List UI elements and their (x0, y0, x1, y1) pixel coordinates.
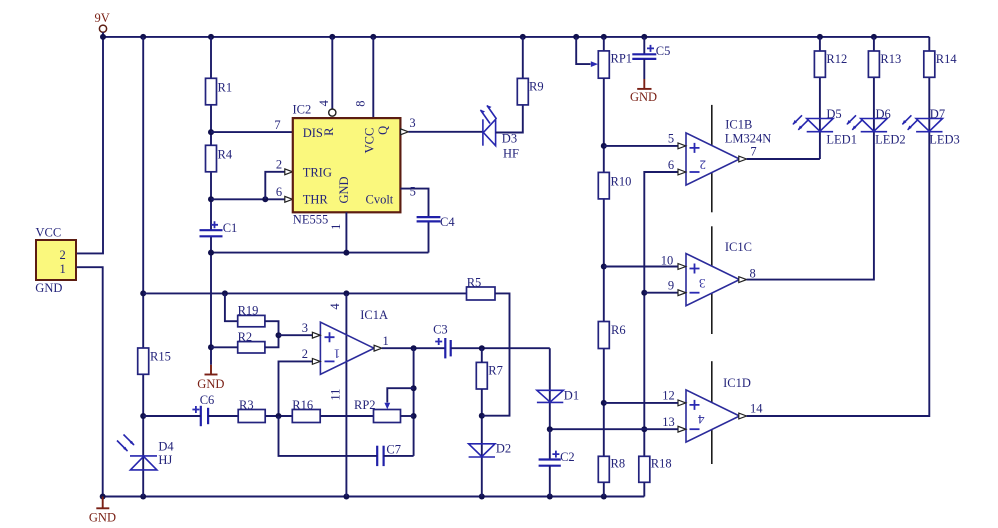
wire R19 left drop (225, 293, 238, 321)
svg-text:R: R (322, 127, 336, 136)
pin arrow IC1A in3 (312, 332, 320, 338)
capacitor C1 polarized (200, 221, 238, 237)
node gnd bus C2 (547, 494, 553, 500)
resistor R15 (138, 348, 171, 374)
svg-text:C4: C4 (440, 215, 455, 229)
wire D1 column (549, 348, 551, 429)
svg-text:1: 1 (334, 347, 341, 362)
wire IC1A pin2 (279, 361, 313, 416)
LED D3 (HF emitter) (480, 105, 519, 160)
svg-text:2: 2 (700, 157, 707, 172)
svg-text:NE555: NE555 (293, 212, 328, 226)
LED D6 LED2 (847, 107, 906, 147)
node D1/C2/pin13 (547, 426, 553, 432)
svg-text:6: 6 (276, 185, 282, 199)
svg-text:11: 11 (328, 389, 342, 401)
svg-text:R12: R12 (826, 52, 847, 66)
LED D7 LED3 (902, 107, 960, 147)
node top bus RP1 wiper (573, 34, 579, 40)
node IC1C pin9 (641, 290, 647, 296)
node gnd bus D2 (479, 494, 485, 500)
wire R9 top (522, 37, 524, 79)
pin arrow IC1D in12 (678, 400, 686, 406)
pin arrow IC1B out7 (739, 156, 747, 162)
svg-text:R2: R2 (238, 330, 253, 344)
svg-text:R6: R6 (611, 323, 626, 337)
op-amp IC2 NE555 (293, 103, 401, 227)
svg-text:D3: D3 (502, 132, 517, 146)
svg-text:D4: D4 (158, 440, 174, 454)
svg-text:R3: R3 (239, 398, 254, 412)
svg-text:IC1B: IC1B (725, 118, 752, 132)
node top bus R9 (520, 34, 526, 40)
svg-text:IC2: IC2 (293, 103, 312, 117)
wire R15/D4 column (142, 37, 144, 497)
svg-text:4: 4 (328, 303, 342, 310)
node C1 bottom (208, 250, 214, 256)
svg-text:RP2: RP2 (354, 398, 376, 412)
pin arrow IC1D in13 (678, 426, 686, 432)
resistor R14 (924, 51, 958, 77)
node R3/R16/C7/pin2 (276, 413, 282, 419)
wire C7 left loop (279, 416, 378, 456)
LED D5 LED1 (793, 107, 857, 147)
svg-text:D6: D6 (876, 107, 891, 121)
wire R18 bottom to gnd bus (643, 482, 645, 496)
wire IC1B out to D5 (747, 158, 820, 160)
capacitor C5 polarized (632, 37, 670, 79)
pin arrow IC1A out1 (374, 345, 382, 351)
rail IC1C (711, 226, 713, 334)
pin 4 inversion circle (329, 109, 336, 116)
wire C1-pin1-C4 rail (211, 252, 429, 254)
svg-text:VCC: VCC (36, 226, 62, 240)
connector VCC (35, 226, 76, 296)
diode D1 (537, 389, 579, 403)
svg-text:GND: GND (35, 281, 62, 295)
potentiometer RP2 (354, 398, 401, 423)
wire RP1 bottom / R10 column (603, 78, 605, 496)
resistor R6 (598, 322, 625, 349)
resistor R8 (598, 456, 625, 482)
svg-text:RP1: RP1 (611, 52, 633, 66)
wire R7 column (481, 348, 483, 362)
node IC1D pin12 (601, 400, 607, 406)
node DIS junction (208, 129, 214, 135)
svg-text:D5: D5 (826, 107, 841, 121)
svg-text:5: 5 (668, 132, 674, 146)
capacitor C3 polarized (433, 323, 451, 359)
svg-text:4: 4 (698, 412, 705, 427)
node TRIG/THR junction (262, 196, 268, 202)
wire IC1C pin10 (604, 266, 678, 268)
svg-text:C7: C7 (386, 443, 401, 457)
wire RP2 right (401, 415, 414, 417)
wire R2 left (211, 346, 238, 348)
wire RP2 wiper (387, 388, 413, 402)
op-amp IC1C (686, 240, 752, 306)
svg-text:2: 2 (276, 157, 282, 171)
node top bus RP1 (601, 34, 607, 40)
node R15 top y293 (140, 290, 146, 296)
wire 555 pin1 to lower rail (345, 212, 347, 252)
wire IC1C out to D6 column (747, 132, 874, 280)
wire D3 to R9 (496, 105, 523, 133)
capacitor C7 (377, 443, 401, 467)
pin arrow IC1C out8 (739, 277, 747, 283)
svg-text:2: 2 (60, 248, 66, 262)
svg-text:4: 4 (317, 99, 331, 106)
ground symbol bottom left (89, 497, 116, 525)
wire THR pin6 (211, 198, 285, 200)
svg-text:DIS: DIS (303, 126, 323, 140)
wire 555 pin8 from bus (372, 37, 374, 118)
svg-text:3: 3 (699, 276, 706, 291)
pin arrow TRIG (285, 169, 293, 175)
svg-text:R14: R14 (936, 52, 958, 66)
capacitor C2 polarized (539, 429, 575, 496)
svg-text:LM324N: LM324N (725, 132, 772, 146)
node wiper branch (411, 385, 417, 391)
svg-text:LED2: LED2 (875, 133, 906, 147)
ground symbol R2 column (197, 365, 224, 391)
svg-text:D7: D7 (930, 107, 945, 121)
wire IC1A pin4 (345, 293, 347, 496)
node top bus C5 (641, 34, 647, 40)
svg-text:R9: R9 (529, 80, 544, 94)
resistor R3 (238, 398, 265, 423)
svg-text:1: 1 (382, 334, 388, 348)
resistor R5 (467, 275, 496, 300)
wire IC1D pin12 (604, 402, 678, 404)
svg-text:3: 3 (409, 116, 415, 130)
resistor R16 (292, 398, 320, 423)
resistor R9 (517, 78, 543, 105)
pin arrow IC1C in10 (678, 264, 686, 270)
svg-text:3: 3 (302, 321, 308, 335)
node gnd bus pin11 (343, 494, 349, 500)
svg-text:C3: C3 (433, 323, 448, 337)
resistor R7 (476, 362, 503, 389)
resistor R18 (639, 456, 672, 482)
resistor R19 (238, 304, 265, 327)
capacitor C4 (417, 215, 456, 229)
svg-text:VCC: VCC (363, 128, 377, 154)
node gnd bus left (100, 494, 106, 500)
wire C6 right to R3 (208, 415, 238, 417)
rail IC1B (711, 105, 713, 212)
pin arrow IC1D out14 (739, 413, 747, 419)
pin arrow IC1C in9 (678, 290, 686, 296)
node top bus R12 (817, 34, 823, 40)
node RP2 right (411, 413, 417, 419)
pin arrow THR (285, 196, 293, 202)
wire C3 right to R7 (451, 347, 550, 349)
wire out node down (413, 348, 415, 456)
svg-text:R7: R7 (488, 364, 503, 378)
wire R16 to RP2 (320, 415, 373, 417)
wire IC1C pin9 (644, 292, 678, 294)
wire DIS pin7 (211, 131, 293, 133)
resistor R13 (868, 51, 901, 77)
svg-text:R4: R4 (218, 148, 233, 162)
wire IC1B pin5 (604, 145, 678, 147)
svg-text:13: 13 (662, 415, 675, 429)
op-amp IC1D (686, 376, 751, 442)
wire C6 left (143, 415, 201, 417)
node IC1B pin5 (601, 143, 607, 149)
node top bus pin4 (329, 34, 335, 40)
pin arrow IC1B in6 (678, 169, 686, 175)
svg-text:12: 12 (662, 389, 675, 403)
wire R5 right loop (482, 293, 510, 415)
svg-text:C5: C5 (656, 44, 671, 58)
svg-text:R19: R19 (238, 304, 259, 318)
svg-text:GND: GND (89, 511, 116, 525)
svg-text:C6: C6 (200, 393, 215, 407)
svg-text:HF: HF (503, 146, 519, 160)
svg-text:LED1: LED1 (826, 133, 857, 147)
node top bus x143 (140, 34, 146, 40)
node IC1A pin3 (276, 332, 282, 338)
pin arrow IC1A in2 (312, 359, 320, 365)
resistor R10 (598, 172, 631, 199)
svg-text:7: 7 (274, 118, 280, 132)
node gnd bus D4 (140, 494, 146, 500)
svg-text:D1: D1 (564, 389, 579, 403)
wire IC1D pin13 (550, 428, 678, 430)
node IC1D pin13 (641, 426, 647, 432)
svg-text:R10: R10 (611, 175, 632, 189)
svg-text:IC1D: IC1D (723, 376, 751, 390)
wire R2 right (265, 335, 279, 347)
wire 555 pin5 Cvolt (400, 189, 428, 217)
wire C4 bottom (428, 221, 430, 252)
svg-text:D2: D2 (496, 442, 511, 456)
node R7 top (479, 345, 485, 351)
svg-text:1: 1 (329, 224, 343, 230)
node 555 pin1 (343, 250, 349, 256)
wire R12 column (819, 37, 821, 159)
svg-text:LED3: LED3 (929, 133, 960, 147)
capacitor C6 polarized (192, 393, 214, 426)
wire R2 column below bus (no junction at y293) (210, 253, 212, 365)
op-amp IC1A (320, 308, 388, 374)
node THR junction (208, 196, 214, 202)
node top bus pin8 (370, 34, 376, 40)
wire pin3 to D3 (408, 131, 483, 133)
op-amp IC1B (686, 118, 771, 186)
wire VCC pin1 to ground rail (77, 267, 103, 496)
svg-text:1: 1 (60, 262, 66, 276)
svg-text:R8: R8 (611, 457, 626, 471)
svg-text:2: 2 (302, 347, 308, 361)
svg-text:R15: R15 (150, 350, 171, 364)
potentiometer RP1 (576, 37, 632, 78)
wire R3 to R16 (265, 415, 292, 417)
9V power terminal (95, 11, 110, 37)
svg-text:R13: R13 (880, 52, 901, 66)
rail IC1D (711, 361, 713, 464)
node IC1A pin4 (343, 290, 349, 296)
svg-text:Q: Q (376, 126, 390, 135)
node top bus R13 (871, 34, 877, 40)
resistor R12 (814, 51, 847, 77)
wire IC1A out node (382, 347, 445, 349)
svg-text:R1: R1 (218, 81, 233, 95)
wire 555 pin4 from bus (331, 37, 333, 109)
wire R14 column from bus corner (928, 37, 930, 132)
wire R19 right (265, 321, 279, 335)
svg-text:10: 10 (661, 253, 674, 267)
svg-text:TRIG: TRIG (303, 165, 332, 179)
resistor R1 (206, 78, 233, 105)
svg-text:9: 9 (668, 279, 674, 293)
svg-text:C2: C2 (560, 450, 575, 464)
pin arrow 555 Q output (401, 129, 409, 135)
node IC1C pin10 (601, 264, 607, 270)
wire top supply bus (103, 36, 929, 38)
svg-text:IC1A: IC1A (360, 308, 388, 322)
wire R1/R4/C1 column (210, 37, 212, 230)
node out1/C3 (411, 345, 417, 351)
svg-text:R16: R16 (292, 398, 313, 412)
pin arrow IC1B in5 (678, 143, 686, 149)
diode D2 (469, 442, 512, 457)
node C6 junction (140, 413, 146, 419)
svg-text:GND: GND (337, 176, 351, 203)
node top bus x211 (208, 34, 214, 40)
node gnd bus R8 (601, 494, 607, 500)
svg-text:6: 6 (668, 158, 674, 172)
node R2 left junction (208, 344, 214, 350)
svg-text:7: 7 (750, 145, 756, 159)
LED D4 (photodiode HJ) (117, 435, 174, 470)
node R19 drop (222, 290, 228, 296)
svg-text:14: 14 (750, 402, 763, 416)
svg-text:R18: R18 (651, 457, 672, 471)
wire IC1D out to D7 column (747, 132, 930, 417)
svg-text:8: 8 (354, 100, 368, 106)
svg-text:5: 5 (410, 184, 416, 198)
wire IC1A pin3 (279, 334, 313, 336)
svg-text:HJ: HJ (158, 453, 172, 467)
node R7 bottom (479, 413, 485, 419)
wire R13 column (873, 37, 875, 132)
svg-text:Cvolt: Cvolt (366, 193, 394, 207)
svg-text:8: 8 (749, 266, 755, 280)
resistor R2 (238, 330, 265, 353)
wire mid horizontal y293 (143, 292, 466, 294)
wire left 9V drop to VCC pin2 (77, 37, 104, 254)
ground symbol C5 (630, 79, 657, 104)
svg-text:9V: 9V (95, 11, 110, 25)
svg-text:GND: GND (197, 377, 224, 391)
wire C7 right (384, 455, 414, 457)
wire IC1B pin6 / R18 column (644, 172, 678, 456)
svg-text:THR: THR (303, 193, 329, 207)
node 9V junction (100, 34, 106, 40)
svg-text:GND: GND (630, 90, 657, 104)
resistor R4 (206, 145, 233, 172)
svg-text:C1: C1 (223, 221, 238, 235)
svg-text:R5: R5 (467, 275, 482, 289)
wire TRIG pin2 (265, 172, 284, 200)
svg-text:IC1C: IC1C (725, 240, 752, 254)
wire bottom ground bus (103, 496, 645, 498)
